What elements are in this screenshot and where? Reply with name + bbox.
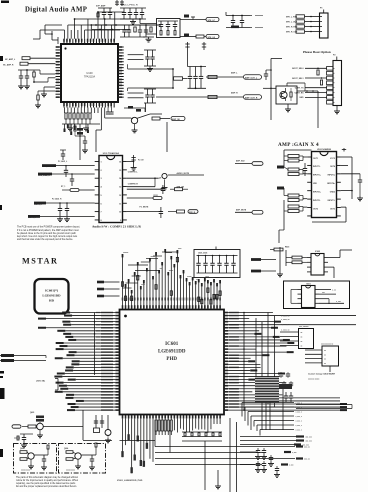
svg-text:INPUT1+: INPUT1+ (313, 175, 322, 177)
wire bus to output stage (263, 59, 282, 121)
IC601 LGE6911DD PHD main SoC body (120, 310, 225, 415)
note text block (17, 226, 80, 242)
svg-text:OUT2: OUT2 (313, 208, 318, 210)
svg-text:R131: R131 (154, 195, 158, 197)
IC601 right pin stubs (224, 312, 228, 411)
svg-text:x_xx: x_xx (332, 290, 336, 292)
svg-text:BOOT_SEL0: BOOT_SEL0 (292, 68, 303, 70)
IC601 variant callout box (35, 279, 69, 314)
IC601 right signal rows and vertical buses (228, 312, 356, 411)
svg-text:5VP_AMP: 5VP_AMP (96, 5, 106, 8)
svg-text:xx: xx (324, 363, 326, 365)
svg-text:xx: xx (324, 354, 326, 356)
caption under IC601 (117, 480, 143, 482)
capacitor cluster C101/C102 above U100 (96, 5, 112, 20)
svg-text:x_xxxx_xx: x_xxxx_xx (281, 330, 290, 332)
svg-text:be placed close to the IC pins: be placed close to the IC pins and the g… (17, 232, 76, 235)
svg-text:x_xxx_x: x_xxx_x (295, 421, 301, 423)
svg-text:VCC2: VCC2 (330, 158, 335, 160)
option circuit box 1 transistor Q603 (14, 444, 57, 474)
svg-text:SPK_ON: SPK_ON (177, 186, 185, 188)
IC601 bottom pin drops and resistor packs (120, 419, 221, 473)
svg-text:OUT3: OUT3 (330, 208, 335, 210)
svg-text:xxx_xxx: xxx_xxx (306, 441, 312, 443)
transistor Q103 output stage in box (276, 86, 297, 104)
svg-text:xxxx xx xxxxx: xxxx xx xxxxx (308, 379, 319, 381)
input coupling capacitors C115 C116 resistor R106 (18, 69, 56, 89)
svg-text:xxxx: xxxx (178, 248, 182, 250)
svg-text:x_xxx_x: x_xxx_x (295, 412, 301, 414)
ribbon bus block right of IC601 (255, 377, 279, 403)
transistor Q101 shutdown driver (101, 108, 185, 133)
transistor Q102 mute circuit (127, 171, 204, 190)
staircase bus to bottom-right labels (242, 403, 352, 436)
svg-text:Q601: Q601 (30, 412, 34, 414)
svg-text:xxxxxx: xxxxxx (123, 252, 128, 254)
svg-text:PVCC_L PVCC_R: PVCC_L PVCC_R (121, 5, 138, 7)
gain resistors R140 R141 (284, 150, 312, 167)
svg-text:x_xxx: x_xxx (336, 301, 341, 303)
svg-text:INPUT4-: INPUT4- (328, 174, 336, 177)
vertical drop bundle below U100 (64, 124, 89, 135)
svg-text:C601-C606: C601-C606 (198, 253, 207, 255)
bias divider R127 C126 left column (74, 124, 96, 160)
svg-text:MSTAR: MSTAR (22, 257, 58, 266)
title AMP GAIN X 4 (278, 142, 319, 148)
capacitor C109 resistor R105 to ground (143, 25, 154, 42)
svg-text:COMPIN_L: COMPIN_L (128, 171, 139, 173)
gain resistors R146 R147 and return wire (279, 200, 307, 243)
line-in coupling network C130 C131 (38, 160, 95, 186)
wire risers above U100 (33, 11, 160, 39)
resistor R130 spk-on (127, 185, 188, 195)
input net labels NC_AMP_L/R (3, 57, 56, 67)
svg-text:IC601_LGE6911DD_PHD: IC601_LGE6911DD_PHD (117, 480, 143, 482)
regulator U604 block (305, 344, 339, 373)
bead FB2 and net AMP_OUT_L (206, 72, 262, 80)
output ferrite bead FB1 and routing loop (128, 64, 188, 91)
svg-text:LGE6911DD: LGE6911DD (42, 294, 61, 298)
capacitors C117 C118 on OUTP (128, 50, 156, 71)
svg-text:GND: GND (299, 97, 304, 99)
feedback resistor array R120-R126 below U100 (62, 108, 100, 131)
regulator U603 block (280, 326, 314, 349)
svg-text:AMP :GAIN X 4: AMP :GAIN X 4 (278, 142, 319, 148)
svg-text:PHD: PHD (166, 357, 177, 362)
svg-text:OUT1: OUT1 (313, 158, 318, 160)
title MSTAR (22, 257, 58, 266)
U100 pin stubs (4 sides) (56, 39, 124, 108)
supply filter cluster right (279, 372, 336, 430)
svg-text:NC_AMP_L: NC_AMP_L (5, 58, 16, 61)
svg-text:xxx: xxx (196, 279, 199, 281)
svg-text:xxxxx: xxxxx (187, 276, 192, 278)
option circuit box 2 transistor Q604 (59, 443, 106, 473)
svg-text:Caution! damage CAUD NAVER: Caution! damage CAUD NAVER (308, 373, 336, 376)
transistor Q602 strap circuit (83, 415, 112, 443)
ground returns and gain resistor R107 (35, 87, 56, 108)
svg-text:IC602: IC602 (315, 251, 320, 253)
ac coupling caps bottom right (240, 448, 297, 477)
svg-text:xx: xx (324, 350, 326, 352)
marks below U100 right (124, 106, 145, 112)
title Digital Audio AMP (25, 7, 87, 14)
svg-text:x_xxx: x_xxx (289, 465, 294, 467)
wire risers above IC601 with series resistors (121, 249, 221, 305)
svg-text:PJ_MUTE: PJ_MUTE (140, 206, 149, 208)
svg-text:xxxxx: xxxxx (150, 256, 155, 258)
svg-text:xxxxx: xxxxx (169, 270, 174, 272)
bottom-right net label rows (240, 435, 312, 446)
svg-text:Audio S/W : COMP1 21 SIDE L/R: Audio S/W : COMP1 21 SIDE L/R (92, 224, 141, 228)
svg-text:and thermal vias under the exp: and thermal vias under the exposed pad o… (17, 238, 73, 241)
svg-text:xxxx: xxxx (141, 284, 145, 286)
svg-text:list and the proper replacemen: list and the proper replacement procedur… (16, 485, 77, 488)
transistor Q601 reset circuit (12, 410, 83, 440)
svg-text:IC601: IC601 (165, 342, 179, 347)
analog switch U101 body (99, 152, 123, 223)
svg-text:Please Boot Option: Please Boot Option (303, 50, 331, 54)
svg-text:LVDS_SEL: LVDS_SEL (36, 381, 46, 383)
svg-text:repairing, use the parts speci: repairing, use the parts specified in th… (16, 482, 76, 485)
svg-text:x_xxx_x: x_xxx_x (295, 425, 301, 427)
IC601 left signal rows with net labels (38, 312, 115, 412)
svg-text:xxx: xxx (322, 292, 325, 294)
level shifter IC602 with resistors R601 R602 (286, 250, 352, 278)
svg-text:xxx xxxxxxx xx: xxx xxxxxxx xx (321, 344, 333, 346)
mute resistor divider R132 (127, 195, 198, 218)
snubber network box with C111-C113 R102-R104 (140, 19, 180, 38)
wires and pull resistors R110 R111 to P2 (292, 68, 326, 100)
caption audio switch (92, 224, 141, 228)
svg-text:COMPIN_R: COMPIN_R (128, 183, 139, 185)
capacitor/resistor row C107 C108 R101 (92, 24, 160, 37)
svg-text:xxxxx xxxx: xxxxx xxxx (66, 470, 75, 472)
svg-text:PJ_AUD_R: PJ_AUD_R (52, 198, 62, 201)
op-amp U100 class-D audio amplifier body (61, 44, 118, 102)
U100 pin-name tags (56, 39, 122, 106)
capacitors at sheet top edge (115, 0, 124, 6)
svg-text:xxx_xxxxxx: xxx_xxxxxx (299, 326, 308, 328)
ground and feed to gain stage (285, 83, 318, 128)
svg-text:BOOT_SEL1: BOOT_SEL1 (292, 78, 303, 80)
svg-text:xxx_xx: xxx_xx (304, 459, 310, 461)
bracket group LVDS (36, 379, 115, 391)
op-amp U102 gain stage body (312, 148, 337, 218)
svg-text:notice for the improvement in: notice for the improvement in quality an… (16, 479, 79, 482)
svg-text:AMP_L: AMP_L (231, 72, 238, 75)
svg-text:INPUT3-: INPUT3- (328, 200, 336, 202)
svg-text:kept short. Use 2oz copper for: kept short. Use 2oz copper for the high … (17, 235, 78, 238)
wires from cap box to right section (251, 258, 276, 272)
wire jogs and labels above IC601 (97, 248, 219, 297)
svg-text:SPK_LP: SPK_LP (208, 20, 216, 22)
svg-text:AMP_OUT_R: AMP_OUT_R (245, 96, 258, 99)
svg-text:x_xxx: x_xxx (292, 452, 297, 454)
net labels AMP_SD2 AMP_MUTE (235, 160, 263, 214)
svg-text:The parts of this schematic di: The parts of this schematic diagram may … (16, 476, 78, 479)
svg-text:xx: xx (301, 332, 303, 334)
svg-text:xx: xx (301, 337, 303, 339)
svg-text:Q603: Q603 (20, 448, 24, 450)
gain resistors R142 R143 cap C140 (277, 163, 307, 176)
label Please Boot Option (303, 50, 331, 54)
svg-text:xxxxx xxxx: xxxxx xxxx (21, 470, 30, 472)
svg-text:SPK_LN: SPK_LN (208, 37, 216, 39)
svg-text:xx: xx (301, 341, 303, 343)
capacitor pair C120 C121 top-right (226, 12, 263, 28)
bottom note text block (16, 476, 79, 488)
svg-text:PJ_AUD_L: PJ_AUD_L (58, 160, 68, 163)
component inputs C132 C133 and grounds (28, 186, 95, 221)
svg-text:PJ_5V: PJ_5V (138, 159, 144, 161)
U102 pin stubs and pin names (307, 157, 341, 216)
svg-text:R603: R603 (285, 247, 289, 249)
svg-text:x_xxxx_xx: x_xxxx_xx (281, 316, 290, 318)
node junctions above U100 (139, 18, 161, 26)
svg-text:Q604: Q604 (64, 447, 68, 450)
svg-text:INPUT2+: INPUT2+ (313, 191, 322, 193)
capacitors C119 C122 on OUTN (128, 89, 156, 112)
svg-text:x_xxx_x: x_xxx_x (295, 416, 301, 418)
bead FB3 and net AMP_OUT_R (156, 66, 262, 100)
svg-text:R?_1: R?_1 (61, 186, 65, 188)
svg-text:xx: xx (324, 359, 326, 361)
svg-text:GND2: GND2 (330, 191, 335, 193)
wires to mute switch section (96, 108, 167, 153)
svg-text:HD: HD (49, 299, 55, 303)
gain resistors R144 R145 (277, 187, 307, 202)
svg-text:INPUT1-: INPUT1- (313, 166, 321, 168)
svg-text:TPA3110A: TPA3110A (84, 75, 96, 78)
svg-text:xxx_xxx: xxx_xxx (303, 445, 309, 447)
U101 pin stubs and numbers (95, 162, 127, 222)
svg-text:xx: xx (301, 346, 303, 348)
svg-text:IC601(*): IC601(*) (45, 289, 58, 293)
U102 output wires and cap C141 (312, 148, 363, 222)
svg-text:x_xxx_x: x_xxx_x (295, 430, 301, 432)
svg-text:AMP_MUTE: AMP_MUTE (236, 209, 247, 212)
svg-text:NC_AMP_R: NC_AMP_R (3, 63, 14, 66)
svg-text:UART_TX: UART_TX (295, 87, 304, 90)
svg-text:INPUT4+: INPUT4+ (327, 182, 336, 185)
svg-text:AMP_R: AMP_R (231, 92, 238, 95)
LC output filter C123-C125 (185, 42, 206, 88)
connector P1 speaker header with net labels (286, 8, 328, 39)
svg-text:U101 TS5A22364: U101 TS5A22364 (103, 152, 120, 155)
svg-text:U102 NJM4580: U102 NJM4580 (317, 148, 332, 151)
svg-text:AMP_SD: AMP_SD (172, 118, 181, 121)
pull-down R603 (270, 247, 289, 277)
svg-text:The PCB must use of the POWER: The PCB must use of the POWER component … (17, 226, 80, 229)
svg-text:x_xxxx_xx: x_xxxx_xx (281, 324, 290, 326)
capacitor near U101 top-left (60, 150, 66, 160)
reset RC C610 R610 (14, 434, 33, 448)
svg-text:INPUT2-: INPUT2- (313, 200, 321, 202)
svg-text:LGE6911DD: LGE6911DD (158, 349, 186, 354)
right row labels (281, 316, 290, 332)
svg-text:xxx: xxx (160, 268, 163, 270)
capacitor bank C103-C106 (120, 5, 146, 25)
series resistor rows below IC601 (182, 432, 222, 441)
svg-text:SPK_R: SPK_R (189, 212, 196, 214)
IC601 bottom pin stubs (122, 415, 221, 419)
svg-text:Digital Audio AMP: Digital Audio AMP (25, 7, 87, 14)
svg-text:UART_RX: UART_RX (295, 91, 305, 94)
svg-text:xxx_xxx: xxx_xxx (306, 437, 312, 439)
decoupling C134 on U101 VCC (127, 155, 145, 170)
svg-text:If it is not a POWER land patt: If it is not a POWER land pattern, the A… (17, 229, 79, 232)
net ovals SPK_LP SPK_LN right of snubber box (180, 15, 219, 39)
svg-text:x_xxxx_xx: x_xxxx_xx (281, 319, 290, 321)
IC601 left pin stubs (115, 312, 119, 411)
wires to page-left nets (0, 354, 46, 362)
long bus wires below IC601 (155, 418, 310, 492)
decoupling capacitor box C601-C606 (194, 247, 240, 278)
svg-text:xxx_xx: xxx_xx (304, 447, 310, 449)
svg-text:X601: X601 (306, 284, 310, 286)
IC601 top pin stubs (122, 305, 221, 309)
connector P2 boot option header (327, 55, 342, 114)
scan edge artifacts (0, 1, 9, 458)
svg-text:AMP_OUT_L: AMP_OUT_L (245, 76, 258, 79)
svg-text:AMP_SD2: AMP_SD2 (236, 160, 245, 163)
svg-text:AUDIO_MUTE: AUDIO_MUTE (177, 172, 190, 175)
wires upper-left of U100 (45, 25, 62, 44)
crystal module X601 in shield box (284, 281, 350, 309)
